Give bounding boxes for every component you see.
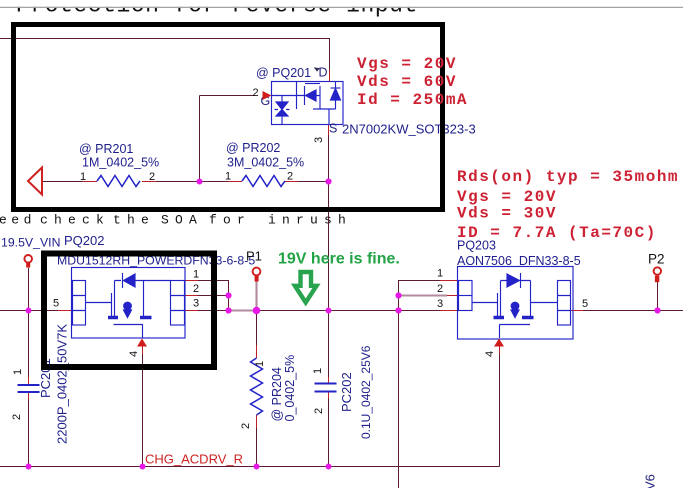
svg-text:eed: eed — [0, 213, 36, 228]
wire main rail to PQ203 — [257, 310, 399, 312]
terminal P1 — [253, 268, 261, 276]
node P2 — [654, 307, 660, 313]
resistor PR204 — [251, 358, 263, 415]
svg-text:Vgs = 20V: Vgs = 20V — [357, 55, 457, 73]
off-page connector arrow — [28, 168, 42, 195]
pin stub PR202 — [228, 181, 298, 183]
svg-text:2: 2 — [149, 171, 155, 183]
gate line — [86, 281, 115, 319]
wire P2 stub — [657, 281, 659, 311]
svg-text:check: check — [40, 213, 110, 228]
svg-text:2N7002KW_SOT323-3: 2N7002KW_SOT323-3 — [342, 122, 476, 137]
capacitor PC202 — [315, 384, 337, 392]
transistor PQ201 body — [272, 82, 344, 125]
svg-text:1: 1 — [437, 268, 443, 280]
svg-text:Rds(on) typ = 35mohm: Rds(on) typ = 35mohm — [457, 168, 679, 186]
wire PQ202 pin3 — [198, 310, 229, 312]
toolbar mask over title — [0, 0, 683, 7]
pin stub caps — [29, 377, 329, 400]
annotation box 2 — [44, 254, 214, 368]
pin stub PR201 — [83, 181, 156, 183]
gate arrow — [263, 91, 272, 100]
resistor PR202 — [242, 176, 285, 187]
svg-text:2: 2 — [287, 171, 293, 183]
svg-text:19.5V_VIN: 19.5V_VIN — [1, 236, 60, 250]
pin stub PQ202 pin4 / PQ203 pin4 — [143, 346, 500, 354]
svg-text:V6: V6 — [643, 474, 658, 488]
wire PR202 row — [200, 181, 329, 183]
body diode inside PQ203 — [501, 273, 531, 288]
svg-text:P1: P1 — [246, 249, 262, 264]
wire PQ202 pin1 — [198, 281, 229, 296]
terminal 19.5V_VIN — [24, 255, 32, 263]
svg-text:Vds = 60V: Vds = 60V — [357, 73, 457, 91]
node bottom rail 4 — [326, 464, 332, 470]
svg-text:@ PR204: @ PR204 — [270, 367, 284, 421]
wire PQ203 pin3 — [399, 310, 441, 312]
transistor PQ203 body — [458, 267, 574, 340]
node PQ203 pin3 — [395, 307, 401, 313]
svg-text:ID = 7.7A (Ta=70C): ID = 7.7A (Ta=70C) — [457, 224, 657, 242]
gate bottom to pin4 — [500, 325, 531, 339]
wire PQ203 pin1 — [399, 281, 441, 296]
source bars — [494, 316, 534, 319]
svg-text:4: 4 — [128, 351, 140, 357]
wire PR201 row — [42, 181, 200, 183]
svg-text:2: 2 — [253, 87, 259, 99]
wire highlight P1 drop — [255, 281, 257, 311]
svg-text:1: 1 — [254, 361, 266, 367]
svg-text:@ PR202: @ PR202 — [226, 141, 280, 155]
svg-text:PC202: PC202 — [339, 372, 354, 412]
svg-text:P2: P2 — [648, 252, 665, 267]
pin4 arrow — [137, 339, 147, 347]
svg-text:3M_0402_5%: 3M_0402_5% — [227, 156, 304, 170]
svg-text:AON7506 DFN33-8-5: AON7506 DFN33-8-5 — [457, 254, 581, 268]
bulk dot and source arrow — [511, 302, 520, 311]
node bottom rail 1 — [26, 464, 32, 470]
svg-text:SOA: SOA — [161, 213, 203, 228]
svg-text:1: 1 — [312, 368, 324, 374]
svg-text:1: 1 — [225, 171, 231, 183]
transistor PQ202 body — [72, 268, 186, 339]
gate bottom to pin4 — [114, 325, 143, 339]
green arrow down — [295, 272, 317, 303]
svg-text:0_0402_5%: 0_0402_5% — [283, 355, 297, 422]
wire PQ203 pin5 to P2 — [583, 310, 683, 312]
right connect — [531, 302, 558, 304]
source bars — [108, 316, 152, 319]
node P1 junction — [253, 307, 261, 315]
pin stub PQ203 pins 1,3 — [440, 281, 457, 311]
pin stub PQ203 pin5 — [571, 310, 584, 312]
wire PQ203 pin4 down — [499, 354, 501, 467]
node PQ202 pin3 — [225, 307, 231, 313]
wire PC202 — [328, 311, 330, 467]
svg-text:1: 1 — [80, 171, 86, 183]
svg-text:0.1U_0402_25V6: 0.1U_0402_25V6 — [359, 345, 373, 439]
wire top rail net to PQ201 drain — [0, 39, 330, 71]
wire PQ201 source down — [328, 135, 330, 311]
svg-text:2: 2 — [240, 423, 252, 429]
wire PQ203 node down — [398, 296, 400, 488]
wire highlight node to P1 — [229, 309, 257, 311]
svg-text:the: the — [113, 213, 155, 228]
pin stub PQ202 pins 1-3 — [185, 281, 199, 311]
node PR202/PQ201 source — [325, 178, 331, 184]
node PC202 top — [326, 308, 332, 314]
pin stub PQ201 drain — [329, 70, 331, 81]
pin stub PQ203 pin2 — [447, 295, 457, 297]
bulk dot and source arrow — [123, 302, 132, 311]
wire PQ202 pin4 down — [142, 354, 144, 467]
body diode inside PQ202 — [115, 273, 171, 288]
svg-text:inrush: inrush — [268, 213, 352, 228]
svg-text:5: 5 — [582, 298, 588, 310]
svg-text:5: 5 — [53, 298, 59, 310]
svg-text:2: 2 — [11, 414, 23, 420]
wire 19.5V_VIN down — [28, 268, 30, 467]
node PQ203 pin2 — [395, 292, 401, 298]
svg-text:2: 2 — [313, 408, 325, 414]
svg-text:3: 3 — [193, 298, 199, 310]
body diode inside PQ201 — [331, 87, 341, 89]
pin stub PQ201 source — [328, 125, 330, 135]
svg-text:1: 1 — [193, 269, 199, 281]
svg-text:Vds = 30V: Vds = 30V — [457, 205, 557, 223]
pin stub PR204 — [256, 345, 258, 428]
node bottom rail 3 — [254, 464, 260, 470]
svg-text:1M_0402_5%: 1M_0402_5% — [82, 156, 159, 170]
svg-text:2: 2 — [437, 283, 443, 295]
node VIN rail — [26, 308, 32, 314]
svg-text:@ PQ201: @ PQ201 — [256, 66, 311, 80]
wire pin5 rail — [0, 310, 60, 312]
pin4 arrow — [494, 339, 504, 347]
svg-text:19V here is fine.: 19V here is fine. — [278, 251, 400, 268]
wire PR204 — [256, 311, 258, 467]
note text: Need check the SOA for inrush — [0, 213, 352, 228]
wire PQ201 gate net vertical — [200, 96, 256, 182]
svg-text:@ PR201: @ PR201 — [79, 142, 133, 156]
annotation box 1 — [14, 25, 443, 210]
node bottom rail 2 — [140, 464, 146, 470]
svg-text:2: 2 — [193, 283, 199, 295]
zener diode inside PQ201 — [281, 96, 283, 103]
mosfet arrow inside PQ201 — [304, 86, 306, 105]
node PQ202 pin2 — [225, 292, 231, 298]
wire highlight PQ203 pin2 — [399, 294, 448, 296]
pin stub PQ202 pin5 — [58, 310, 72, 312]
top window edge line — [0, 6, 683, 8]
svg-text:Id = 250mA: Id = 250mA — [357, 91, 468, 109]
wire PQ202 pin2 — [198, 296, 229, 311]
node PR201/PR202 junction — [197, 179, 203, 185]
svg-text:PQ202: PQ202 — [64, 233, 104, 248]
svg-text:3: 3 — [313, 137, 325, 143]
svg-text:for: for — [209, 213, 251, 228]
svg-text:S: S — [329, 122, 337, 136]
svg-text:2200P_0402_50V7K: 2200P_0402_50V7K — [55, 324, 70, 444]
svg-text:1: 1 — [12, 369, 24, 375]
capacitor PC201 — [18, 385, 40, 392]
resistor PR201 — [97, 176, 140, 187]
terminal P2 — [654, 267, 661, 274]
gate line — [472, 281, 501, 319]
svg-text:3: 3 — [437, 298, 443, 310]
svg-text:D: D — [319, 66, 328, 80]
wire bottom rail — [0, 466, 500, 468]
svg-text:Vgs = 20V: Vgs = 20V — [457, 188, 557, 206]
svg-text:4: 4 — [484, 351, 496, 357]
svg-text:CHG_ACDRV_R: CHG_ACDRV_R — [145, 452, 243, 467]
